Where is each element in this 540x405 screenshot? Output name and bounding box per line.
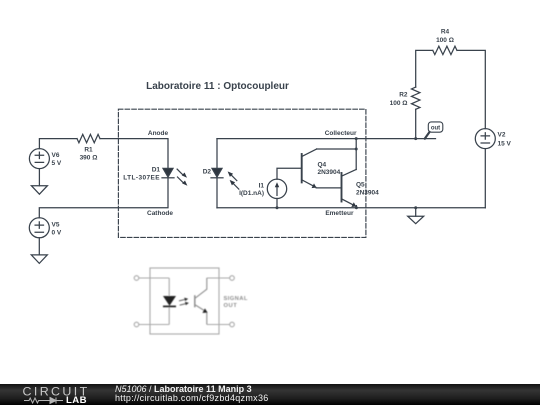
svg-text:0 V: 0 V bbox=[52, 229, 62, 236]
svg-text:V5: V5 bbox=[52, 221, 60, 228]
LED D1 bbox=[123, 167, 174, 182]
svg-text:OUT: OUT bbox=[224, 303, 238, 309]
resistor R2 bbox=[390, 87, 420, 109]
svg-text:Laboratoire 11 : Optocoupleur: Laboratoire 11 : Optocoupleur bbox=[146, 81, 289, 92]
svg-text:LTL-307EE: LTL-307EE bbox=[123, 174, 160, 181]
wire Q4 collector to right edge bbox=[317, 148, 357, 150]
voltage source V5 bbox=[29, 218, 62, 238]
svg-text:2N3904: 2N3904 bbox=[318, 169, 341, 176]
svg-text:Emetteur: Emetteur bbox=[325, 210, 354, 217]
optocoupler boundary dashed box bbox=[118, 109, 366, 237]
footer bar bbox=[0, 384, 540, 405]
svg-text:I(D1.nA): I(D1.nA) bbox=[239, 190, 264, 197]
svg-text:Q4: Q4 bbox=[318, 161, 327, 168]
photodiode D2 light arrows bbox=[228, 171, 239, 189]
svg-text:5 V: 5 V bbox=[52, 160, 62, 167]
svg-text:R2: R2 bbox=[399, 92, 408, 99]
package phototransistor bbox=[195, 278, 207, 325]
wire V2 to emitter rail bbox=[484, 149, 486, 208]
wire V5 to ground bbox=[38, 238, 40, 255]
package box bbox=[150, 268, 219, 334]
wire collector top rail bbox=[217, 138, 436, 140]
ground (below V6) bbox=[31, 186, 47, 195]
LED D1 light arrows bbox=[177, 169, 187, 186]
svg-text:SIGNAL: SIGNAL bbox=[224, 296, 248, 302]
resistor R1 bbox=[77, 134, 100, 161]
svg-text:Collecteur: Collecteur bbox=[325, 130, 357, 137]
wire R4 to V2 bbox=[457, 50, 485, 128]
wire D2 anode (left edge top) bbox=[216, 139, 218, 169]
junction ground/emitter rail bbox=[414, 206, 417, 209]
junction R2/collector rail bbox=[414, 137, 417, 140]
voltage source V2 bbox=[475, 129, 511, 149]
svg-text:out: out bbox=[431, 125, 440, 131]
svg-text:390 Ω: 390 Ω bbox=[80, 155, 98, 162]
svg-text:100 Ω: 100 Ω bbox=[390, 100, 408, 107]
wire I1 top to Q4 base bbox=[277, 168, 302, 179]
svg-text:LAB: LAB bbox=[66, 395, 87, 405]
svg-text:D1: D1 bbox=[152, 167, 161, 174]
footer text bbox=[115, 385, 252, 395]
svg-text:V6: V6 bbox=[52, 152, 60, 159]
wire V6 to R1 bbox=[39, 139, 77, 149]
node out flag bbox=[425, 122, 443, 139]
photodiode D2 bbox=[203, 168, 223, 178]
ground (emitter rail) bbox=[415, 208, 417, 216]
svg-text:Q5: Q5 bbox=[356, 182, 365, 189]
wire V6 to ground bbox=[38, 169, 40, 186]
junction collector rail bbox=[355, 137, 358, 140]
wire D2 cathode (left edge bottom) bbox=[216, 178, 218, 208]
pin circles bbox=[134, 276, 139, 281]
wire collector right edge vertical bbox=[355, 139, 357, 170]
wire R2 bottom to collector rail bbox=[415, 109, 417, 138]
svg-text:D2: D2 bbox=[203, 168, 212, 175]
svg-text:R1: R1 bbox=[84, 147, 93, 154]
junction Q5 emitter rail bbox=[355, 206, 358, 209]
svg-text:I1: I1 bbox=[259, 182, 265, 189]
voltage source V6 bbox=[29, 149, 62, 169]
svg-text:R4: R4 bbox=[441, 29, 450, 36]
svg-text:Anode: Anode bbox=[148, 130, 169, 137]
junction Q4 collector bbox=[355, 148, 358, 151]
wire D1 cathode to V5 bbox=[39, 178, 168, 218]
wire I1 bottom to emitter rail bbox=[276, 199, 278, 208]
svg-text:Cathode: Cathode bbox=[147, 210, 173, 217]
wire Q5 emitter to rail bbox=[355, 206, 357, 208]
svg-text:V2: V2 bbox=[498, 132, 506, 139]
svg-text:2N3904: 2N3904 bbox=[356, 189, 379, 196]
wire Q4 emitter to Q5 base bbox=[316, 187, 341, 189]
package LED bbox=[168, 278, 170, 325]
CircuitLab logo bbox=[0, 384, 100, 405]
package light arrows bbox=[179, 298, 189, 306]
current source I1 bbox=[239, 179, 287, 198]
ground (below V5) bbox=[31, 255, 47, 264]
wire emitter bottom rail bbox=[217, 207, 485, 209]
optocoupler package illustration bbox=[134, 268, 248, 334]
transistor Q4 bbox=[302, 149, 341, 188]
transistor Q5 bbox=[342, 170, 380, 208]
svg-text:15 V: 15 V bbox=[498, 140, 512, 147]
junction I1/emitter rail bbox=[276, 206, 279, 209]
wire R1 to D1 bbox=[100, 139, 168, 169]
svg-text:100 Ω: 100 Ω bbox=[436, 37, 454, 44]
wire R2 top to R4 bbox=[416, 50, 433, 87]
resistor R4 bbox=[433, 29, 457, 55]
pin wires bbox=[139, 278, 230, 325]
